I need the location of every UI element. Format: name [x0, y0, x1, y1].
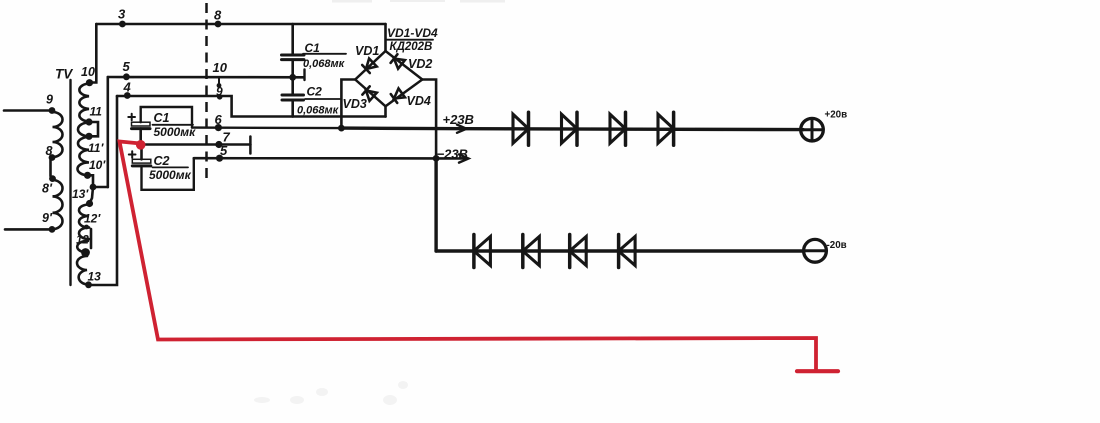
capacitor C2 0.068 lead bottom — [291, 100, 294, 116]
capacitor C1 0.068 lead top — [291, 24, 294, 55]
secondary winding 12-13 — [77, 256, 89, 285]
primary stub wire top — [4, 109, 52, 112]
svg-text:−23В: −23В — [437, 147, 468, 162]
node 7 row — [141, 143, 251, 146]
secondary winding 11-11' — [78, 123, 89, 137]
svg-text:11: 11 — [90, 105, 103, 119]
capacitor C2 5000мк plus sign — [129, 151, 136, 158]
node 11 terminal dot — [85, 118, 92, 125]
junction dot node 5/10 — [289, 74, 296, 81]
junction 10'/13' dot — [90, 184, 97, 191]
lower diode chain (4 diodes) — [474, 235, 635, 268]
capacitor C1 5000мк bottom lead — [139, 129, 142, 145]
pin 3 dot — [119, 21, 126, 28]
node 12' terminal dot — [84, 225, 89, 230]
diode D9 — [474, 237, 491, 266]
chassis end bar of node 5/10 wire — [303, 70, 305, 81]
node 11' terminal dot — [85, 133, 92, 140]
svg-text:0,068мк: 0,068мк — [297, 105, 340, 117]
capacitor C1 5000мк plus sign — [128, 114, 135, 121]
svg-text:10: 10 — [81, 65, 95, 79]
wire terminal 10 up to node 3 wire — [90, 24, 97, 83]
svg-text:C1: C1 — [154, 111, 170, 125]
primary winding 9-8 — [53, 112, 63, 157]
-23V vertical to lower row — [434, 158, 437, 251]
node 4/9 wire — [117, 96, 386, 117]
wire junction to vertical — [93, 186, 108, 189]
svg-text:10′: 10′ — [89, 158, 106, 172]
capacitor C2 5000мк lead top — [140, 145, 143, 160]
svg-text:VD1-VD4: VD1-VD4 — [387, 26, 438, 40]
diode D6 — [562, 114, 578, 143]
node 8' terminal dot — [49, 175, 56, 182]
svg-text:11′: 11′ — [88, 141, 104, 155]
diode D8 — [658, 114, 674, 143]
svg-text:C2: C2 — [307, 85, 323, 99]
secondary winding 10-11 — [79, 84, 89, 122]
primary winding 8'-9' — [53, 180, 63, 229]
svg-text:+20в: +20в — [825, 110, 848, 121]
+20в output terminal — [801, 118, 824, 141]
wire terminal 13 to node 4 vertical — [89, 96, 118, 285]
upper diode chain (4 diodes) — [513, 112, 674, 145]
node 10 terminal dot — [86, 79, 93, 86]
pin 7 dot — [215, 141, 222, 148]
label VD1-VD4 / КД202В — [387, 26, 438, 53]
pin 5 dot (lower) — [216, 155, 223, 162]
svg-text:VD1: VD1 — [355, 44, 379, 58]
label C1 5000мк — [154, 111, 197, 139]
red chassis ground bar — [797, 369, 838, 373]
label C1 0,068мк — [303, 41, 346, 70]
diode VD3 — [362, 86, 376, 101]
jumper 12' to 12 — [90, 229, 93, 248]
lower output row — [436, 249, 803, 253]
jumper 8 to 8' — [51, 158, 53, 179]
chassis bar node 7 — [249, 137, 252, 154]
diode VD4 — [391, 89, 405, 103]
node 5/10 wire — [108, 76, 304, 79]
svg-text:VD3: VD3 — [343, 97, 367, 111]
node 8 terminal dot — [49, 154, 56, 161]
secondary winding 12'-12 — [79, 228, 89, 240]
svg-text:0,068мк: 0,068мк — [303, 58, 346, 70]
svg-text:VD4: VD4 — [407, 94, 431, 108]
svg-text:5000мк: 5000мк — [149, 168, 192, 182]
label C2 5000мк — [149, 154, 192, 182]
-20в output terminal — [804, 239, 827, 262]
diode D11 — [570, 237, 587, 266]
svg-text:3: 3 — [118, 7, 126, 22]
bridge bottom lead — [384, 106, 387, 116]
bridge right corner wire down to -23V row — [422, 80, 436, 159]
capacitor C2 5000мк bottom route to node 5 — [142, 158, 194, 190]
pin 8 dot — [215, 21, 222, 28]
bridge diamond — [355, 51, 422, 106]
node 9' terminal dot — [49, 226, 56, 233]
svg-text:4: 4 — [123, 80, 132, 95]
capacitor C2 0.068 lead top — [291, 77, 294, 94]
node 9 terminal dot — [49, 107, 56, 114]
pin 10 tick dot — [217, 83, 222, 88]
capacitor C2 0.068 plates — [282, 94, 304, 97]
diode D5 — [513, 114, 529, 143]
node 12 terminal dot — [81, 248, 90, 257]
node 5 / -23V row — [194, 157, 467, 160]
svg-text:VD2: VD2 — [408, 57, 432, 71]
svg-text:8: 8 — [214, 8, 222, 23]
svg-text:13: 13 — [88, 270, 102, 284]
diode D7 — [610, 114, 626, 143]
svg-text:6: 6 — [215, 112, 223, 127]
arrowhead -23V — [459, 154, 469, 162]
capacitor C1 5000мк plates — [132, 122, 151, 126]
transformer core — [69, 80, 71, 285]
primary stub wire bottom — [5, 228, 52, 231]
svg-text:5: 5 — [123, 59, 131, 74]
label C2 0,068мк — [297, 85, 340, 117]
wire vertical to node 5/10 row — [107, 77, 110, 187]
svg-text:8: 8 — [46, 144, 53, 158]
svg-text:5: 5 — [220, 143, 228, 158]
red junction blob — [136, 140, 146, 150]
svg-text:C2: C2 — [154, 154, 170, 168]
junction dot +23V — [338, 125, 345, 132]
secondary winding 13'-12' — [79, 205, 89, 228]
svg-text:-20в: -20в — [827, 240, 847, 251]
junction dot -23V — [433, 155, 440, 162]
svg-text:8′: 8′ — [42, 182, 53, 196]
svg-text:5000мк: 5000мк — [154, 125, 197, 139]
secondary winding to 12 — [77, 241, 88, 253]
diode D10 — [523, 237, 540, 266]
capacitor C1 0.068 plates — [282, 54, 305, 57]
wire 10' to junction — [88, 175, 94, 187]
svg-text:13′: 13′ — [72, 187, 89, 201]
capacitor C2 5000мк plates — [132, 159, 151, 163]
wire junction down to 13' — [90, 187, 94, 204]
faint smudges bottom — [254, 381, 408, 405]
node 10' terminal dot — [84, 172, 91, 179]
svg-text:9: 9 — [46, 93, 53, 107]
svg-text:9′: 9′ — [42, 211, 53, 225]
node 13 terminal dot — [85, 281, 92, 288]
faint cropped title smudge top — [332, 0, 505, 3]
node 3/8 top wire — [96, 23, 385, 26]
capacitor C1 5000мк top route to node 6 — [141, 107, 192, 128]
svg-text:10: 10 — [213, 60, 228, 75]
diode VD2 — [391, 54, 405, 68]
pin 4 dot — [124, 92, 131, 99]
capacitor C1 0.068 lead bottom — [291, 60, 294, 77]
pin 9 dot — [217, 94, 223, 100]
diode VD1 — [362, 59, 377, 74]
svg-text:12′: 12′ — [84, 212, 101, 226]
jumper 11 to 11' — [89, 122, 98, 136]
bridge top lead — [384, 24, 387, 51]
diode D12 — [619, 237, 636, 266]
arrowhead +23V — [457, 125, 467, 133]
pin 6 dot — [215, 124, 222, 131]
node 13' terminal dot — [86, 200, 93, 207]
secondary winding 11'-10' — [77, 137, 89, 175]
pin 5 dot — [123, 73, 130, 80]
pin 10 tick — [218, 77, 220, 84]
node 6 / +23V row — [192, 126, 341, 129]
svg-text:КД202В: КД202В — [390, 41, 433, 53]
red annotation wire — [120, 142, 839, 372]
connector dashed line — [205, 3, 208, 180]
bridge left corner wire down to +23V row — [341, 80, 355, 129]
